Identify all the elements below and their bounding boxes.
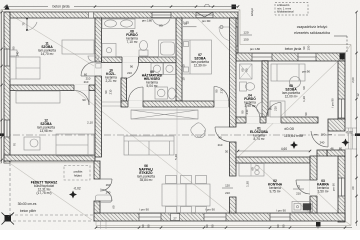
kitchen counter top — [239, 164, 264, 177]
bed room12 — [56, 134, 94, 156]
wardrobe room12 — [16, 91, 60, 103]
shower bathroom08 — [102, 44, 116, 58]
window vent room11 — [26, 18, 28, 31]
left wall — [4, 12, 10, 163]
chair room11 — [88, 56, 99, 62]
window east kamra pm:60 — [338, 178, 345, 196]
toilet bathroom08 — [139, 50, 148, 56]
window bottom nappali 1 — [139, 213, 161, 221]
entrance side wall lower block — [327, 150, 345, 156]
konyha/kamra wall — [310, 156, 317, 213]
wall bathroom08/room07 — [176, 18, 182, 101]
room 05 szoba — [282, 84, 300, 98]
entrance side wall upper block — [328, 119, 345, 131]
bottom wall — [94, 213, 345, 221]
window W2 bathroom pm:180 — [152, 12, 171, 18]
washbasin bathroom04 — [257, 103, 263, 114]
section marker right — [355, 133, 360, 136]
opening kozl threshold — [102, 102, 122, 106]
porch lines right of entrance — [345, 128, 357, 149]
window swing bathroom08 — [153, 19, 171, 25]
right wall of top part (x=231-238) — [231, 18, 238, 53]
right dim line — [356, 12, 358, 226]
window wing-top szoba05 — [298, 53, 316, 61]
wing top wall — [236, 53, 345, 61]
nightstand room11 — [10, 50, 17, 56]
room 02 konyha — [268, 179, 283, 193]
section marker left — [0, 133, 6, 136]
eloszoba north wall — [236, 117, 318, 123]
entrance door 180/240 — [311, 131, 328, 147]
door eloszoba-nappali — [215, 127, 230, 142]
right dim rotated numbers — [351, 77, 360, 190]
window left room11 — [4, 49, 10, 66]
room 07 szoba — [191, 53, 209, 67]
window east szoba05 pm:90 — [338, 99, 345, 118]
duct slit in top wall — [89, 12, 94, 17]
left ticks — [0, 11, 2, 13]
room 04 furdo — [244, 94, 256, 108]
room 06 nappali etkezo — [137, 164, 155, 182]
top dim line — [5, 6, 48, 8]
table szoba05 — [290, 77, 301, 88]
bed szoba05 — [271, 64, 305, 81]
top ticks — [4, 5, 6, 7]
kitchen counter bottom — [292, 202, 313, 213]
toilet bathroom04 — [240, 82, 247, 91]
ceiling diagonal projection lines — [11, 17, 338, 220]
wall kozl/haztartasi — [121, 78, 127, 101]
konyha north wall — [236, 157, 310, 163]
window left room12 — [4, 120, 10, 137]
window east room07 120/150 — [231, 27, 238, 46]
door bathroom08 — [122, 58, 139, 79]
top wall — [5, 12, 238, 18]
bathroom08 south wall — [102, 57, 183, 63]
window bottom nappali 2 — [204, 213, 226, 221]
downspout bottom right — [316, 222, 321, 227]
door room07 — [214, 87, 229, 102]
wall between room11 and room12 — [10, 85, 95, 91]
room 08 furdo — [126, 30, 138, 44]
corridor south wall (below room07 / haztartasi) — [121, 101, 229, 107]
chimney box in bottom wall — [171, 214, 180, 221]
desk szoba05 — [270, 101, 285, 117]
padlas feljaro attic hatch — [64, 166, 90, 181]
west wall of nappali facing terrace — [94, 161, 100, 179]
bottom ticks — [95, 226, 97, 228]
szikkaszto dashed note box — [275, 3, 308, 16]
sink counter bathroom08 — [102, 19, 135, 29]
tv bench nappali — [96, 195, 112, 203]
door room11 — [81, 62, 95, 76]
room 03 kamra — [317, 179, 330, 193]
central vertical wall — [95, 18, 102, 157]
appliances haztartasi — [151, 63, 163, 75]
bottom dim line — [96, 227, 352, 229]
room 12 szoba — [37, 119, 55, 133]
window W3 center mark — [204, 5, 210, 8]
window W3 room07 pm:90 — [196, 12, 213, 18]
armchair nappali — [189, 121, 208, 140]
door haztartasi south — [128, 87, 143, 101]
dining table — [162, 184, 210, 206]
door room12 — [74, 90, 89, 105]
bed room11 — [10, 57, 40, 79]
room 09 haztartasi — [142, 70, 163, 88]
desk room12 — [24, 137, 40, 150]
door kamra — [296, 180, 310, 194]
room 10 kozl — [105, 69, 117, 83]
shower bathroom04 — [240, 64, 253, 79]
window swing arc room07 — [219, 27, 231, 41]
kamra north wall — [317, 150, 327, 156]
door terasz (double) — [100, 179, 112, 201]
section line A-A — [0, 134, 360, 136]
door bathroom04 — [246, 104, 260, 118]
downspout right wing — [340, 54, 345, 60]
downspout at top-right corner of main body — [232, 5, 237, 10]
main wall between nappali and east wing — [230, 18, 237, 127]
room 01 eloszoba — [250, 127, 269, 141]
bathtub bathroom08 — [159, 40, 177, 57]
sofa nappali — [124, 136, 174, 155]
room 11 szoba — [38, 42, 56, 56]
window bottom konyha — [270, 213, 290, 221]
wall bathroom04/szoba05 — [262, 61, 268, 117]
window wing-top bathroom04 pm:180 — [252, 53, 272, 61]
terrace label — [31, 181, 58, 196]
right outer wall — [338, 61, 345, 120]
left dim line — [1, 12, 3, 163]
room12 south wall to terrace — [4, 155, 95, 161]
door szoba05 — [267, 103, 282, 118]
right ticks — [355, 11, 357, 13]
north arrow triangle — [5, 4, 10, 10]
concrete pillar 30x30 — [2, 213, 15, 225]
sideboard nappali — [131, 110, 198, 119]
chairs — [166, 176, 177, 184]
bed room07 — [183, 40, 212, 74]
wardrobe room11 — [62, 40, 94, 54]
level marker stars — [69, 139, 350, 199]
